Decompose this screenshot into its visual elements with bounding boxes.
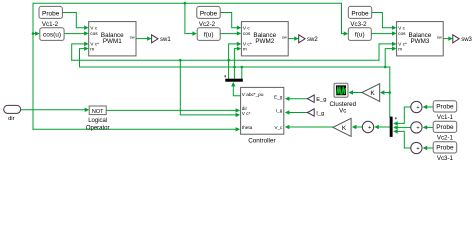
svg-text:V abc*_pu: V abc*_pu: [242, 92, 264, 97]
svg-text:V c: V c: [90, 25, 98, 31]
wire probe Vc3-1 to sum S3: [427, 147, 433, 149]
wire sum S3 to mux2 staircase: [397, 131, 411, 148]
svg-text:V c: V c: [398, 25, 406, 31]
wire probe Vc2-1 to sum S2: [427, 126, 433, 128]
function block f(u)2: [197, 28, 220, 41]
svg-text:Probe: Probe: [42, 10, 60, 17]
svg-text:+: +: [416, 125, 419, 131]
output port sw2: [299, 35, 319, 43]
svg-text:m: m: [243, 47, 247, 52]
svg-text:Vc: Vc: [339, 108, 346, 115]
svg-text:m: m: [398, 47, 402, 52]
wire theta top run: [33, 2, 342, 4]
wire gain K1 to scope: [353, 92, 362, 94]
wire sum S2 to mux2: [397, 126, 411, 128]
svg-text:V c: V c: [243, 25, 251, 31]
signal tag I_g: [307, 109, 324, 117]
svg-text:cos: cos: [90, 32, 98, 37]
wire controller Vabc output up into demux1: [233, 86, 240, 96]
wire bus B up to PWM3 m port: [385, 49, 392, 67]
wire NOT to controller dir port: [106, 109, 236, 111]
wire bus A down to controller Vc* port: [180, 60, 236, 115]
svg-text:sw: sw: [282, 34, 287, 39]
wire theta end down to f(u)3: [342, 3, 344, 33]
subsystem Balance PWM3: [397, 22, 444, 56]
svg-text:Vc2-1: Vc2-1: [437, 135, 454, 142]
wire bus B up to PWM1 m port: [80, 49, 85, 67]
svg-text:sw1: sw1: [160, 37, 171, 43]
label tick beside mux bar: [395, 117, 396, 119]
wire probe Vc1-1 to sum S1: [427, 106, 433, 108]
probe P2 measuring Vc2-2: [197, 6, 220, 18]
svg-text:sw: sw: [130, 34, 135, 39]
svg-text:Vc3-1: Vc3-1: [437, 155, 454, 162]
function block f(u)3: [348, 28, 371, 41]
probe P3 measuring Vc3-2: [348, 6, 371, 18]
svg-text:I_g: I_g: [316, 111, 324, 117]
svg-text:Vc3-2: Vc3-2: [350, 21, 367, 28]
svg-text:Probe: Probe: [436, 104, 454, 111]
scope Clustered Vc: [330, 83, 357, 114]
probe P6 measuring Vc3-1: [433, 142, 457, 153]
wire Probe3 to PWM3 Vc port: [372, 13, 393, 28]
svg-text:+: +: [368, 125, 371, 131]
label tick above demux bar: [225, 75, 226, 77]
svg-text:Vc2-2: Vc2-2: [199, 21, 216, 28]
function block cos(u): [40, 28, 64, 41]
sum S0: [362, 121, 373, 132]
svg-text:E_g: E_g: [316, 97, 326, 103]
svg-text:f(u): f(u): [355, 32, 365, 39]
svg-text:f(u): f(u): [204, 32, 214, 39]
wire dir to NOT: [21, 109, 85, 111]
wire mux2 to sum S0: [379, 126, 390, 128]
logic gate NOT: [86, 106, 110, 132]
svg-text:+: +: [416, 146, 419, 152]
demux bar for V abc*_pu: [225, 79, 243, 82]
wire theta to controller theta port: [33, 128, 236, 130]
wire f(u)3 to PWM3 cos port: [371, 33, 392, 35]
wire bus A up to PWM1 Vc* port: [72, 44, 85, 60]
wire mux2 output up to bus B: [389, 67, 391, 117]
svg-text:Probe: Probe: [436, 145, 454, 152]
svg-text:Controller: Controller: [248, 137, 275, 144]
wire gain K2 to controller V_c port: [289, 126, 333, 128]
wire demux1 up to PWM2 m port: [234, 49, 237, 79]
svg-text:PWM1: PWM1: [103, 38, 122, 45]
svg-text:sw2: sw2: [307, 37, 318, 43]
wire bus A up to PWM3 Vc* port: [379, 44, 392, 60]
wire Probe1 to PWM1 Vc port: [62, 13, 84, 28]
svg-text:sw: sw: [437, 34, 442, 39]
output port sw1: [152, 35, 172, 43]
svg-text:V c*: V c*: [242, 111, 251, 116]
svg-text:I_g: I_g: [276, 108, 283, 113]
wire f(u)2 to PWM2 cos port: [220, 33, 237, 35]
svg-text:V_c: V_c: [274, 125, 283, 130]
svg-text:Probe: Probe: [436, 124, 454, 131]
wire PWM1 sw to port sw1: [136, 38, 147, 40]
wire demux1 up to PWM2 Vc* port: [229, 44, 237, 79]
probe P5 measuring Vc2-1: [433, 121, 457, 132]
svg-text:Probe: Probe: [351, 10, 369, 17]
wire PWM3 sw to port sw3: [443, 38, 448, 40]
mux bar for cluster voltages: [390, 117, 393, 137]
wire sum S0 to gain K2: [356, 126, 362, 128]
svg-text:PWM2: PWM2: [255, 38, 274, 45]
svg-text:sw3: sw3: [461, 37, 472, 43]
svg-text:cos: cos: [398, 32, 406, 37]
svg-text:Vc1-1: Vc1-1: [437, 114, 454, 121]
svg-text:E_g: E_g: [274, 94, 283, 99]
svg-text:Operator: Operator: [86, 126, 110, 132]
wire bus A Vc* net: [72, 59, 379, 61]
wire PWM2 sw to port sw2: [288, 38, 294, 40]
wire branch into gain K1: [384, 92, 390, 94]
wire theta branch down to f(u)2: [185, 3, 193, 33]
wire theta vertical trunk: [32, 3, 34, 129]
svg-text:cos: cos: [243, 32, 251, 37]
wire tag I_g to controller: [289, 112, 307, 114]
gain K2: [333, 118, 351, 136]
probe P4 measuring Vc1-1: [433, 101, 457, 112]
signal tag E_g: [307, 95, 326, 103]
svg-text:theta: theta: [242, 125, 253, 130]
svg-text:+: +: [416, 105, 419, 111]
subsystem Balance PWM2: [241, 22, 288, 56]
svg-text:m: m: [90, 47, 94, 52]
svg-text:Probe: Probe: [200, 10, 218, 17]
svg-text:NOT: NOT: [92, 109, 104, 115]
svg-text:cos(u): cos(u): [43, 32, 61, 39]
gain K1: [362, 84, 380, 102]
svg-text:K: K: [342, 125, 347, 132]
subsystem Controller: [241, 87, 284, 144]
wire tag E_g to controller: [289, 98, 307, 100]
wire theta branch into cos(u): [33, 33, 35, 35]
wire sum S1 to mux2 staircase: [397, 107, 411, 123]
svg-text:Logical: Logical: [88, 118, 107, 124]
wire cos(u) to PWM1 cos port: [64, 33, 84, 35]
probe P1 measuring Vc1-2: [39, 6, 62, 18]
wire bus B m net: [80, 66, 390, 68]
svg-text:K: K: [370, 90, 375, 97]
sum S2: [411, 122, 422, 133]
svg-text:Vc1-2: Vc1-2: [42, 21, 59, 28]
subsystem Balance PWM1: [89, 22, 136, 56]
wire Probe2 to PWM2 Vc port: [220, 13, 237, 28]
input port dir: [4, 105, 21, 122]
wire demux1 third leg to bus B: [241, 67, 243, 79]
output port sw3: [453, 35, 473, 43]
svg-text:PWM3: PWM3: [410, 38, 429, 45]
svg-text:dir: dir: [8, 116, 15, 122]
sum S1: [411, 101, 422, 112]
sum S3: [411, 142, 422, 153]
